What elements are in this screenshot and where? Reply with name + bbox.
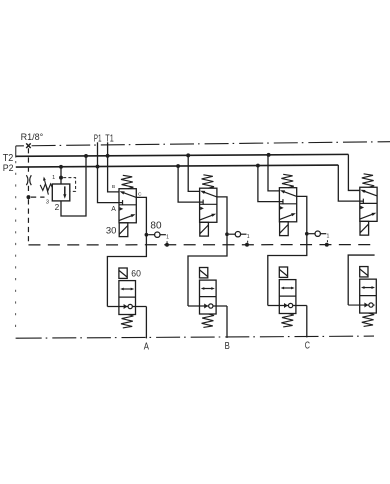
svg-text:P2: P2 (3, 163, 14, 174)
relief valve spring (40, 184, 52, 191)
wire T1 stub through border to T2 (107, 142, 109, 156)
wire work port to border section A (145, 307, 147, 339)
pilot stub (dashed) orifice to gallery section C (326, 240, 328, 242)
node T2 feed section C (267, 153, 271, 157)
orifice 80 section A (148, 232, 166, 237)
node orifice branch section A (145, 233, 149, 237)
svg-text:3: 3 (46, 199, 49, 205)
svg-text:1: 1 (247, 234, 250, 240)
enclosure border top (chain line) (16, 142, 390, 146)
relief valve flow arrow (63, 186, 66, 198)
pilot gallery wire (dashed) across all sections (28, 244, 374, 246)
wire work port to border section B (226, 306, 228, 338)
disconnected coupling symbol )( on pilot line (26, 175, 31, 185)
pilot wire branch (dashed) to relief valve port 3 (31, 196, 45, 198)
svg-text:A: A (111, 206, 116, 213)
node T2/T1 section A (106, 154, 110, 158)
node pilot gallery section C (325, 243, 329, 247)
enclosure border left (chain line, faint) (15, 146, 17, 334)
pressure trunk line P2 (16, 165, 339, 167)
enclosure border bottom (chain line) (16, 336, 374, 338)
node pilot gallery section A (165, 243, 169, 247)
node P2 to relief valve (59, 165, 63, 169)
svg-text:R1/8°: R1/8° (21, 132, 44, 142)
pilot stub (dashed) orifice to gallery section A (166, 241, 168, 243)
pilot junction node (27, 195, 31, 199)
wire pressure feed section C (258, 166, 280, 202)
wire from port C down to cylinder valve section D (scan-cropped) (348, 255, 374, 305)
pilot valve V30 section A (3/2 solenoid valve) (119, 175, 136, 236)
pilot stub (dashed) orifice to gallery section B (247, 241, 249, 243)
wire pressure feed section D (338, 165, 360, 201)
plugged port X symbol on border (26, 143, 31, 148)
node T2 feed section B (186, 153, 190, 157)
node P2 feed section B (176, 164, 180, 168)
svg-text:30: 30 (106, 226, 117, 237)
cylinder valve section C (2/2 solenoid valve) (268, 267, 307, 327)
pilot wire (dashed) continues to junction (27, 186, 29, 195)
wire pressure feed section B (178, 166, 200, 202)
wire tank feed section A (108, 156, 119, 192)
tank trunk line T2 (16, 154, 349, 156)
pilot valve section D (3/2 solenoid valve) (360, 174, 377, 235)
wire from port C down to cylinder valve section C (268, 196, 307, 305)
wire relief valve port 1 from P2 (60, 167, 62, 184)
node orifice branch section C (305, 232, 309, 236)
wire tank feed section D (348, 154, 359, 190)
relief valve V1 body (52, 184, 70, 201)
wire pressure feed section A (98, 167, 120, 203)
cylinder valve section D (2/2 solenoid valve) (348, 267, 376, 327)
orifice section B (229, 232, 247, 237)
pilot wire (dashed) down to manifold pilot gallery (27, 199, 29, 245)
node T2 to relief return (84, 154, 88, 158)
node orifice branch section B (225, 232, 229, 236)
svg-text:1: 1 (327, 234, 330, 240)
svg-text:1: 1 (166, 235, 169, 241)
svg-text:T1: T1 (105, 134, 114, 145)
svg-text:2: 2 (55, 202, 60, 212)
relief valve adjustment arrow (43, 177, 48, 195)
svg-text:C: C (138, 191, 142, 197)
wire work port to border section C (306, 306, 308, 338)
wire tank feed section B (188, 155, 199, 191)
svg-text:80: 80 (150, 221, 162, 232)
svg-text:60: 60 (131, 269, 141, 280)
cylinder valve V60 section A (2/2 solenoid valve) (107, 268, 146, 328)
node P2 feed section C (256, 164, 260, 168)
node P2/P1 section A (96, 165, 100, 169)
pilot wire (dashed) from port X down (27, 148, 29, 174)
node pilot branch on relief feed (59, 176, 63, 180)
svg-text:B: B (112, 184, 115, 190)
pilot wire (dashed) to relief valve spring chamber (63, 178, 75, 192)
wire tank feed section C (268, 155, 279, 191)
cylinder valve section B (2/2 solenoid valve) (188, 268, 227, 328)
pilot valve section B (3/2 solenoid valve) (200, 175, 217, 236)
wire relief valve port 2 to T2 (61, 156, 86, 216)
node pilot gallery section B (245, 243, 249, 247)
svg-text:A: A (144, 342, 149, 353)
svg-text:C: C (305, 341, 311, 352)
svg-text:1: 1 (52, 175, 55, 181)
wire P1 stub through border to P2 (97, 142, 99, 166)
svg-text:B: B (225, 341, 230, 352)
wire from port C down to cylinder valve section A (107, 197, 146, 306)
pilot valve section C (3/2 solenoid valve) (279, 174, 296, 235)
wire from port C down to cylinder valve section B (188, 197, 227, 306)
orifice section C (309, 231, 327, 236)
